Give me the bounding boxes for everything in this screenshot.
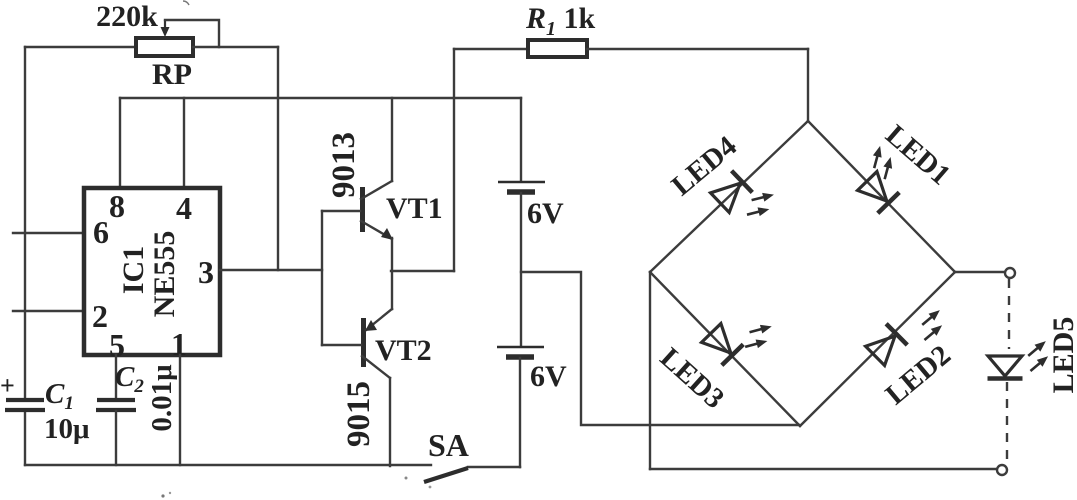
scan speck <box>169 492 171 494</box>
wire: bridge bottom to output terminal <box>650 468 997 470</box>
wire: RP right terminal <box>193 46 278 48</box>
switch SA blade <box>424 468 468 482</box>
wire: RP wiper loop to right terminal <box>165 20 219 47</box>
svg-text:VT1: VT1 <box>386 192 443 225</box>
wire: left vertex drop <box>649 272 651 469</box>
wire: left vertical rail from RP down to C1 <box>24 47 26 398</box>
svg-text:LED1: LED1 <box>879 119 956 192</box>
svg-text:9013: 9013 <box>326 132 362 198</box>
wire: right vertex to terminal <box>955 271 1005 273</box>
svg-text:6V: 6V <box>530 360 567 393</box>
wire: bridge edge top-right <box>808 121 955 272</box>
scan speck <box>183 1 189 5</box>
wire: C2 top lead from pin 5 <box>115 355 117 399</box>
svg-text:SA: SA <box>428 427 469 463</box>
svg-text:LED3: LED3 <box>654 342 731 415</box>
wire: dashed LED5 to bottom terminal <box>1006 382 1008 464</box>
wire: dashed to LED5 <box>1008 279 1010 349</box>
svg-text:VT2: VT2 <box>375 334 432 367</box>
svg-text:LED4: LED4 <box>666 130 743 202</box>
terminal: top output circle <box>1005 268 1015 278</box>
svg-text:8: 8 <box>109 188 125 224</box>
battery B2 6V <box>497 347 544 357</box>
wire: VT1/VT2 emitters vertical <box>391 238 393 309</box>
wire: bridge edge top-left <box>650 121 808 272</box>
LED1 <box>856 171 899 214</box>
wire: Vcc down to battery1 <box>520 98 522 181</box>
transistor Q2: VT2 9015 <box>322 309 392 378</box>
wire: pin 4 drop <box>183 98 185 188</box>
scan speck <box>161 494 164 497</box>
svg-text:3: 3 <box>198 254 214 290</box>
svg-text:6V: 6V <box>527 197 564 230</box>
LED1 rays <box>868 145 897 181</box>
wire: battery2 bottom to switch <box>519 358 521 467</box>
potentiometer RP <box>136 20 193 56</box>
svg-text:+: + <box>0 371 15 400</box>
wire: battery mid junction to bridge bottom <box>521 272 799 425</box>
svg-text:C2: C2 <box>115 361 144 397</box>
capacitor C1 <box>5 400 45 410</box>
wire: pin 1 drop to ground rail <box>179 355 181 465</box>
transistor Q1: VT1 9013 <box>322 181 393 240</box>
LED4 <box>710 171 753 214</box>
wire: C2 bottom lead <box>115 411 117 465</box>
wire: drop to bridge top vertex <box>807 49 809 121</box>
wire: RP left terminal to left rail <box>25 46 136 48</box>
svg-text:NE555: NE555 <box>148 231 181 318</box>
svg-text:4: 4 <box>176 190 192 226</box>
battery B1 6V <box>498 182 545 192</box>
svg-text:6: 6 <box>93 214 109 250</box>
wire: bottom ground rail to switch <box>25 464 431 466</box>
wire: R1 left lead <box>454 48 528 50</box>
wire: bridge edge bottom-right <box>800 272 955 426</box>
scan speck <box>429 486 432 489</box>
wire: battery1 bottom to battery2 top <box>520 193 522 346</box>
LED2 <box>864 324 907 367</box>
svg-text:220k: 220k <box>96 0 158 33</box>
wire: R1 right lead to bridge top <box>587 48 808 50</box>
LED3 <box>700 323 743 366</box>
capacitor C2 <box>96 400 136 410</box>
wire: VT2 collector to ground rail <box>389 378 391 466</box>
svg-text:0.01μ: 0.01μ <box>146 364 178 432</box>
svg-text:IC1: IC1 <box>117 246 150 294</box>
svg-text:C1: C1 <box>45 378 74 414</box>
svg-text:10μ: 10μ <box>44 413 90 445</box>
wire: pin 3 output to transistor bases <box>220 269 322 271</box>
svg-text:2: 2 <box>92 298 108 334</box>
LED4 rays <box>743 190 778 219</box>
svg-text:LED5: LED5 <box>1047 317 1077 394</box>
wire: VT1 collector to Vcc rail <box>391 98 393 181</box>
wire: pin 8 drop <box>119 98 121 188</box>
wire: R1 left vertical <box>453 49 455 271</box>
LED5 rays <box>1019 338 1057 375</box>
scan speck <box>405 477 408 480</box>
wire: C1 bottom to ground rail <box>24 412 26 465</box>
wire: pin 2 to left rail <box>13 310 84 312</box>
svg-text:9015: 9015 <box>341 381 377 447</box>
svg-text:RP: RP <box>152 58 192 91</box>
wire: Vcc rail pin8/pin4 to battery <box>120 97 521 99</box>
resistor R1 <box>528 40 587 57</box>
wire: emitter output to R1 <box>391 270 454 272</box>
wire: bridge edge bottom-left <box>650 272 800 426</box>
LED5 <box>988 356 1023 379</box>
wire: switch right stub <box>468 466 520 468</box>
svg-text:R1 1k: R1 1k <box>525 2 596 40</box>
wire: pin 6 to left rail <box>13 232 84 234</box>
LED3 rays <box>741 322 777 351</box>
IC U1: IC1 NE555 timer box <box>84 188 220 355</box>
terminal: bottom output circle <box>997 465 1007 475</box>
wire: RP right down to pin3 net <box>277 47 279 270</box>
wire: base vertical VT1-VT2 <box>321 211 323 345</box>
LED2 rays <box>913 307 951 344</box>
